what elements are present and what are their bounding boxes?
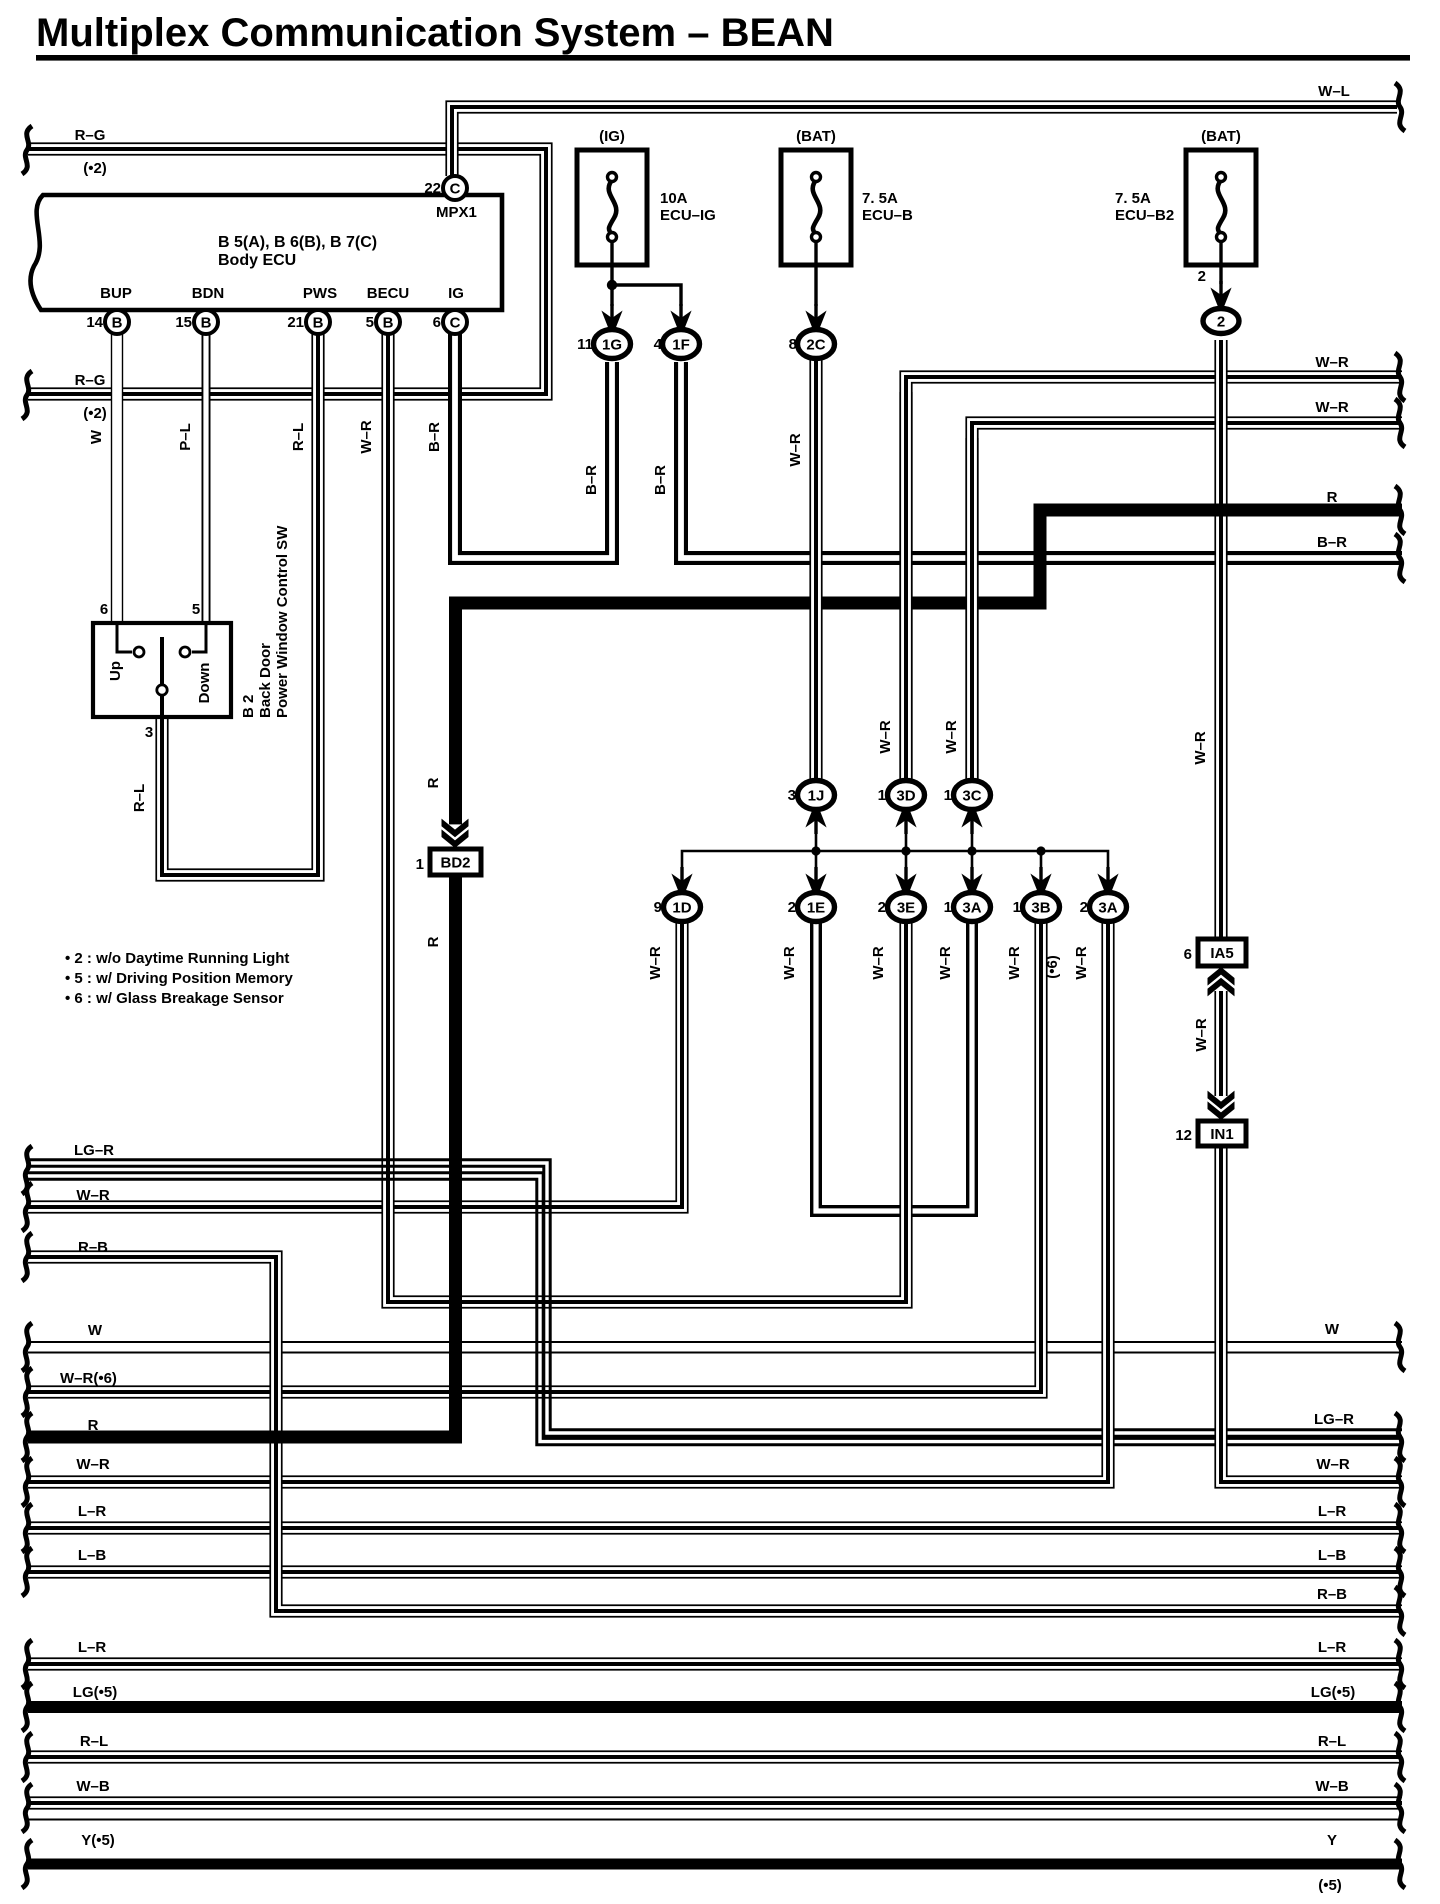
- svg-text:L–R: L–R: [78, 1639, 107, 1656]
- svg-text:3E: 3E: [897, 900, 915, 917]
- svg-text:ECU–B2: ECU–B2: [1115, 207, 1174, 224]
- pin 14 B: [86, 310, 129, 334]
- svg-text:Back Door: Back Door: [257, 643, 274, 718]
- svg-text:(BAT): (BAT): [1201, 128, 1241, 145]
- wire R thick: right edge, BD2, left edge: [28, 510, 1402, 1437]
- bracket W-R bottom left: [22, 1458, 32, 1506]
- wire L-B: [28, 1565, 1402, 1578]
- wire R-G loop (.2) around Body ECU: [28, 149, 546, 394]
- pin label BDN: [192, 285, 225, 302]
- label W-R on 2C wire: [787, 433, 804, 467]
- connector 3D: [878, 781, 925, 810]
- svg-text:9: 9: [654, 899, 662, 916]
- svg-text:IN1: IN1: [1210, 1126, 1233, 1143]
- svg-text:MPX1: MPX1: [436, 204, 477, 221]
- svg-text:2C: 2C: [806, 337, 825, 354]
- label P-L on BDN wire: [177, 423, 194, 451]
- svg-text:3: 3: [145, 724, 153, 741]
- svg-text:W–R: W–R: [787, 433, 804, 467]
- svg-text:(•5): (•5): [1318, 1877, 1342, 1894]
- arrow into connector 3A: [961, 867, 983, 893]
- connector 3B: [1013, 893, 1060, 922]
- svg-text:• 6 : w/ Glass Breakage Senso: • 6 : w/ Glass Breakage Sensor: [65, 990, 284, 1007]
- svg-text:W–L: W–L: [1318, 83, 1350, 100]
- svg-text:BECU: BECU: [367, 285, 410, 302]
- svg-text:• 2 : w/o Daytime Running Lig: • 2 : w/o Daytime Running Light: [65, 950, 289, 967]
- wire W-R connector 2C to connector 1J: [809, 356, 822, 783]
- wire W-R from IN1 to right edge: [1221, 1145, 1402, 1482]
- svg-text:1: 1: [944, 899, 952, 916]
- svg-text:W–R: W–R: [781, 946, 798, 980]
- svg-text:2: 2: [1198, 268, 1206, 285]
- svg-text:W: W: [88, 429, 105, 444]
- svg-text:R: R: [425, 936, 442, 947]
- bracket R-B right: [1395, 1587, 1405, 1635]
- bracket LG(.5) left: [22, 1683, 32, 1731]
- wire W-R vertical to 3D over crossings: [899, 392, 912, 783]
- svg-text:5: 5: [192, 601, 200, 618]
- arrow into connector 3A(2): [1097, 867, 1119, 893]
- svg-text:1F: 1F: [672, 337, 690, 354]
- svg-text:Down: Down: [196, 663, 213, 704]
- label W left: [88, 1322, 103, 1339]
- label B-R on IG wire: [426, 422, 443, 452]
- svg-text:L–B: L–B: [1318, 1547, 1347, 1564]
- label R-L left: [80, 1733, 108, 1750]
- switch Down branch: [180, 623, 206, 657]
- label R left: [88, 1417, 99, 1434]
- label L-R2 right: [1318, 1639, 1347, 1656]
- connector 3A: [944, 893, 991, 922]
- wire B-R from connector 1F to right edge: [681, 362, 1402, 558]
- switch lever: [157, 637, 167, 717]
- svg-text:• 5 : w/ Driving Position Mem: • 5 : w/ Driving Position Memory: [65, 970, 293, 987]
- bracket W-R right 1: [1395, 353, 1405, 401]
- arrow into connector 1F: [670, 304, 692, 330]
- svg-text:W–R: W–R: [943, 720, 960, 754]
- bracket L-B right: [1395, 1548, 1405, 1596]
- label L-B right: [1318, 1547, 1347, 1564]
- bracket R-L left: [22, 1733, 32, 1781]
- svg-text:Y: Y: [1327, 1832, 1337, 1849]
- junction IA5: [1184, 939, 1246, 966]
- svg-text:12: 12: [1175, 1127, 1192, 1144]
- bracket R right: [1395, 486, 1405, 534]
- svg-text:1E: 1E: [807, 900, 825, 917]
- label W-R on 3E wire: [870, 946, 887, 980]
- bracket W-B left: [22, 1784, 32, 1832]
- bracket R left: [22, 1413, 32, 1461]
- bracket W-L: [1395, 83, 1405, 131]
- switch label Down: [196, 663, 213, 704]
- svg-text:4: 4: [654, 336, 663, 353]
- bracket W left: [22, 1323, 32, 1371]
- svg-text:W: W: [88, 1322, 103, 1339]
- bracket L-R2 left: [22, 1640, 32, 1688]
- svg-text:B–R: B–R: [583, 465, 600, 495]
- svg-text:1: 1: [878, 787, 886, 804]
- svg-text:6: 6: [100, 601, 108, 618]
- svg-text:W–R: W–R: [1315, 399, 1349, 416]
- arrow into junction BD2: [441, 819, 469, 848]
- wire W-R U-loop connector 1E to 3A: [816, 921, 972, 1211]
- svg-text:R–L: R–L: [290, 423, 307, 451]
- wire L-R: [28, 1521, 1402, 1534]
- label (.5) right: [1318, 1877, 1342, 1894]
- svg-text:PWS: PWS: [303, 285, 337, 302]
- switch pin 3: [145, 724, 153, 741]
- wire L-R second: [28, 1657, 1402, 1670]
- svg-text:3D: 3D: [896, 788, 915, 805]
- svg-text:L–R: L–R: [1318, 1639, 1347, 1656]
- svg-text:ECU–B: ECU–B: [862, 207, 913, 224]
- connector 3C: [944, 781, 991, 810]
- junction BD2: [416, 849, 481, 875]
- label W right: [1325, 1321, 1340, 1338]
- bracket LG-R right: [1395, 1413, 1405, 1461]
- wire W-R connector 3A(2) to left edge: [28, 921, 1108, 1482]
- pin label BUP: [100, 285, 132, 302]
- svg-text:2: 2: [878, 899, 886, 916]
- svg-text:R: R: [425, 777, 442, 788]
- svg-text:R–G: R–G: [75, 372, 106, 389]
- bracket W-R bottom right: [1395, 1458, 1405, 1506]
- svg-text:W–R: W–R: [937, 946, 954, 980]
- svg-text:2: 2: [1217, 314, 1225, 331]
- label W-R on 1D wire: [647, 946, 664, 980]
- label W-R left: [76, 1187, 110, 1204]
- label W-R on 3A(2) wire: [1073, 946, 1090, 980]
- junction dot at 3C tap: [967, 846, 976, 855]
- bracket W-R(.6) left: [22, 1368, 32, 1416]
- svg-text:21: 21: [287, 314, 304, 331]
- wire W-R right edge to connector 3D: [906, 377, 1402, 783]
- svg-text:R–B: R–B: [78, 1239, 108, 1256]
- svg-text:22: 22: [424, 180, 441, 197]
- bracket R-G upper: [22, 126, 32, 174]
- label R above BD2: [425, 777, 442, 788]
- connector 1F: [654, 330, 700, 359]
- svg-text:R–L: R–L: [1318, 1733, 1346, 1750]
- svg-text:Y(•5): Y(•5): [81, 1832, 115, 1849]
- svg-text:ECU–IG: ECU–IG: [660, 207, 716, 224]
- note w/ Driving Position Memory: [65, 970, 293, 987]
- arrow into connector 3D: [895, 808, 917, 834]
- svg-text:5: 5: [366, 314, 374, 331]
- svg-text:B: B: [313, 315, 324, 332]
- arrow into connector 2C: [805, 304, 827, 330]
- arrow into connector 3B: [1030, 867, 1052, 893]
- wire LG-R companion strand pair: [28, 1173, 1402, 1445]
- wire W-R vertical to 3C over crossings: [965, 438, 978, 783]
- label R-B left: [78, 1239, 108, 1256]
- label W-R bottom left: [76, 1456, 110, 1473]
- pin 21 B: [287, 310, 330, 334]
- arrow into connector 1E: [805, 867, 827, 893]
- label L-R2 left: [78, 1639, 107, 1656]
- bracket B-R right: [1395, 534, 1405, 582]
- svg-text:1: 1: [944, 787, 952, 804]
- svg-text:B 5(A), B 6(B), B 7(C): B 5(A), B 6(B), B 7(C): [218, 234, 377, 251]
- label R-G lower: [75, 372, 107, 422]
- label W-R on ECU-B2 wire: [1192, 731, 1209, 765]
- label B-R right: [1317, 534, 1347, 551]
- svg-text:Power Window Control SW: Power Window Control SW: [274, 525, 291, 718]
- connector 2: [1203, 309, 1239, 334]
- svg-text:BDN: BDN: [192, 285, 225, 302]
- label W-R on 3C wire: [943, 720, 960, 754]
- bracket LG(.5) right: [1395, 1683, 1405, 1731]
- label W-B right: [1315, 1778, 1349, 1795]
- label W-B left: [76, 1778, 110, 1795]
- arrow into junction IA5: [1207, 967, 1235, 996]
- bracket L-R2 right: [1395, 1640, 1405, 1688]
- pin 5 B: [366, 310, 400, 334]
- wire W-L from MPX1 pin 22 to right edge: [452, 107, 1397, 176]
- label W on BUP wire: [88, 429, 105, 444]
- connector 3E: [878, 893, 925, 922]
- svg-text:W–R: W–R: [1315, 354, 1349, 371]
- svg-text:10A: 10A: [660, 190, 688, 207]
- bracket Y right: [1395, 1840, 1405, 1888]
- bracket W-R left: [22, 1183, 32, 1231]
- label W-R on BECU wire: [358, 420, 375, 454]
- svg-text:R–G: R–G: [75, 127, 106, 144]
- switch side label B 2: [240, 695, 257, 718]
- label LG-R left: [74, 1142, 114, 1159]
- svg-text:7. 5A: 7. 5A: [1115, 190, 1151, 207]
- svg-text:B–R: B–R: [426, 422, 443, 452]
- wire Y thick: [28, 1859, 1402, 1870]
- svg-text:8: 8: [789, 336, 797, 353]
- title Multiplex Communication System - BEAN: [36, 11, 1410, 61]
- svg-text:1: 1: [1013, 899, 1021, 916]
- wire R-B left edge down to right edge: [28, 1257, 1402, 1611]
- label R-L on loop: [131, 784, 148, 812]
- svg-text:Body ECU: Body ECU: [218, 252, 296, 269]
- svg-text:L–R: L–R: [78, 1503, 107, 1520]
- svg-text:R–B: R–B: [1317, 1586, 1347, 1603]
- label W-R right 1: [1315, 354, 1349, 371]
- wire W-R from BECU pin 5 to connector 3E: [388, 332, 906, 1302]
- label W-R on 3D wire: [877, 720, 894, 754]
- svg-text:6: 6: [433, 314, 441, 331]
- wire W-R left edge to connector 1D: [28, 921, 682, 1207]
- switch side label Back Door: [257, 643, 274, 718]
- svg-text:2: 2: [1080, 899, 1088, 916]
- pin 15 B: [175, 310, 218, 334]
- svg-text:Up: Up: [107, 661, 124, 681]
- svg-text:W–R: W–R: [877, 720, 894, 754]
- svg-text:BUP: BUP: [100, 285, 132, 302]
- label Y(.5) left: [81, 1832, 115, 1849]
- svg-text:LG(•5): LG(•5): [73, 1684, 117, 1701]
- svg-text:3: 3: [788, 787, 796, 804]
- junction dot at 3D tap: [901, 846, 910, 855]
- arrow into connector 1D: [671, 867, 693, 893]
- svg-text:W–R(•6): W–R(•6): [60, 1370, 117, 1387]
- svg-text:C: C: [450, 315, 461, 332]
- note w/o Daytime Running Light: [65, 950, 289, 967]
- svg-text:W–R: W–R: [870, 946, 887, 980]
- svg-text:3A: 3A: [1098, 900, 1117, 917]
- svg-text:B: B: [201, 315, 212, 332]
- switch side label Power Window Control SW: [274, 525, 291, 718]
- wire below W-B: [28, 1819, 1402, 1821]
- svg-text:IA5: IA5: [1210, 945, 1233, 962]
- svg-text:L–R: L–R: [1318, 1503, 1347, 1520]
- svg-text:LG(•5): LG(•5): [1311, 1684, 1355, 1701]
- fuse 7.5A ECU-B2: [1115, 128, 1256, 265]
- svg-text:W–R: W–R: [1192, 731, 1209, 765]
- MPX1 label: [436, 204, 477, 221]
- arrow into connector 1G: [601, 304, 623, 330]
- svg-text:15: 15: [175, 314, 192, 331]
- svg-text:2: 2: [788, 899, 796, 916]
- label L-R left: [78, 1503, 107, 1520]
- switch pin 6: [100, 601, 108, 618]
- svg-text:W–B: W–B: [1315, 1778, 1349, 1795]
- svg-text:B–R: B–R: [1317, 534, 1347, 551]
- junction IN1: [1175, 1121, 1246, 1146]
- label R-L right: [1318, 1733, 1346, 1750]
- Body ECU box B5(A) B6(B) B7(C): [30, 195, 502, 310]
- fuse 10A ECU-IG: [577, 128, 716, 265]
- svg-text:3C: 3C: [962, 788, 981, 805]
- svg-text:R: R: [1327, 489, 1338, 506]
- svg-text:3A: 3A: [962, 900, 981, 917]
- label LG(.5) left: [73, 1684, 117, 1701]
- label W-L: [1318, 83, 1350, 100]
- svg-text:W–R: W–R: [1073, 946, 1090, 980]
- wire R-L: [28, 1750, 1402, 1763]
- bracket R-G lower: [22, 371, 32, 419]
- pin 2 above connector 2: [1198, 268, 1206, 285]
- svg-text:B: B: [112, 315, 123, 332]
- label W-R(.6) left: [60, 1370, 117, 1387]
- fuse 7.5A ECU-B: [781, 128, 913, 265]
- svg-text:(•6): (•6): [1044, 955, 1061, 979]
- pin label IG: [448, 285, 464, 302]
- connector 1D: [654, 893, 701, 922]
- switch B2 Back Door Power Window Control SW box: [93, 623, 231, 717]
- label W-R on 1E wire: [781, 946, 798, 980]
- wire B-R from IG pin 6 to connector 1G: [455, 332, 612, 558]
- bracket L-R left: [22, 1504, 32, 1552]
- svg-text:1D: 1D: [672, 900, 691, 917]
- label R-L on PWS wire: [290, 423, 307, 451]
- fuse ECU-B output stem: [814, 240, 817, 306]
- switch Up branch: [117, 623, 144, 657]
- svg-text:W–R: W–R: [647, 946, 664, 980]
- wire LG(.5) thick: [28, 1701, 1402, 1713]
- fuse ECU-B2 output stem: [1219, 240, 1222, 284]
- svg-text:W–R: W–R: [1193, 1018, 1210, 1052]
- svg-text:1J: 1J: [808, 788, 825, 805]
- svg-text:R–L: R–L: [80, 1733, 108, 1750]
- arrow into connector 3E: [895, 867, 917, 893]
- svg-text:(BAT): (BAT): [796, 128, 836, 145]
- svg-text:3B: 3B: [1031, 900, 1050, 917]
- svg-text:11: 11: [577, 336, 593, 353]
- label R-G upper: [75, 127, 107, 177]
- svg-text:B: B: [383, 315, 394, 332]
- svg-text:IG: IG: [448, 285, 464, 302]
- wire LG-R left edge to right edge via vertical: [28, 1160, 1402, 1436]
- label B-R on 1F wire: [652, 465, 669, 495]
- bracket R-B left: [22, 1233, 32, 1281]
- bracket W-R right 2: [1395, 399, 1405, 447]
- junction dot at 3B tap: [1036, 846, 1045, 855]
- svg-text:W–R: W–R: [1316, 1456, 1350, 1473]
- junction dot at 1J tap: [811, 846, 820, 855]
- bracket L-B left: [22, 1548, 32, 1596]
- svg-text:W–R: W–R: [76, 1456, 110, 1473]
- wire W-R(.6) left edge to connector 3B: [28, 921, 1041, 1392]
- wire P-L from BDN pin 15 to switch pin 5: [202, 332, 211, 623]
- fuse ECU-IG output stem and branch: [607, 240, 681, 306]
- svg-text:W–B: W–B: [76, 1778, 110, 1795]
- svg-text:BD2: BD2: [440, 855, 470, 872]
- label W-R on IN1 wire: [1193, 1018, 1210, 1052]
- svg-text:Multiplex Communication System: Multiplex Communication System – BEAN: [36, 11, 834, 55]
- label R below BD2: [425, 936, 442, 947]
- svg-text:R: R: [88, 1417, 99, 1434]
- label LG(.5) right: [1311, 1684, 1355, 1701]
- pin 22 C of Body ECU: [424, 176, 467, 200]
- bracket L-R right: [1395, 1504, 1405, 1552]
- svg-text:1: 1: [416, 856, 424, 873]
- bracket Y left: [22, 1840, 32, 1888]
- label W-R right 2: [1315, 399, 1349, 416]
- pin 6 C: [433, 310, 467, 334]
- wire W-R right edge to connector 3C: [972, 423, 1402, 783]
- svg-text:L–B: L–B: [78, 1547, 107, 1564]
- svg-text:(IG): (IG): [599, 128, 625, 145]
- connector 1G: [577, 330, 630, 359]
- switch pin 5: [192, 601, 200, 618]
- label L-B left: [78, 1547, 107, 1564]
- wire R-L loop from switch pin 3 to PWS pin 21: [162, 332, 318, 875]
- svg-text:7. 5A: 7. 5A: [862, 190, 898, 207]
- svg-text:LG–R: LG–R: [74, 1142, 114, 1159]
- arrow into connector 3C: [961, 808, 983, 834]
- svg-text:LG–R: LG–R: [1314, 1411, 1354, 1428]
- svg-text:W–R: W–R: [1006, 946, 1023, 980]
- svg-text:(•2): (•2): [83, 405, 107, 422]
- arrow into connector 1J: [805, 808, 827, 834]
- connector 1J: [788, 781, 835, 810]
- arrow into connector 2: [1210, 281, 1232, 307]
- bracket W-B right: [1395, 1784, 1405, 1832]
- wire W-R IA5 to IN1: [1214, 991, 1227, 1096]
- label LG-R right: [1314, 1411, 1354, 1428]
- label Y right: [1327, 1832, 1337, 1849]
- svg-text:W: W: [1325, 1321, 1340, 1338]
- svg-text:(•2): (•2): [83, 160, 107, 177]
- wire W-R from connector 2 down to IA5: [1214, 340, 1227, 939]
- connector 2C: [789, 330, 835, 359]
- label R-B right: [1317, 1586, 1347, 1603]
- label W-R bottom right: [1316, 1456, 1350, 1473]
- wire W from BUP pin 14 to switch pin 6: [111, 332, 123, 623]
- bracket R-L right: [1395, 1733, 1405, 1781]
- svg-text:W–R: W–R: [358, 420, 375, 454]
- svg-text:W–R: W–R: [76, 1187, 110, 1204]
- wire W full width: [28, 1342, 1402, 1353]
- connector 3A(2): [1080, 893, 1127, 922]
- label R right: [1327, 489, 1338, 506]
